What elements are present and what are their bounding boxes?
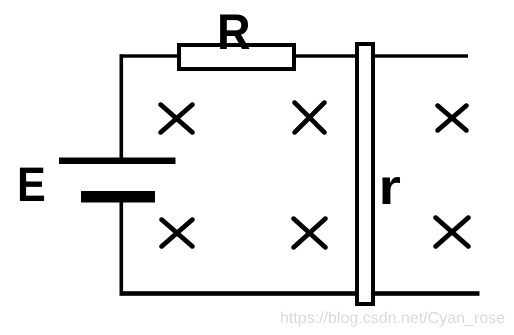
field cross X row2 col2 xyxy=(294,219,326,248)
svg-text:R: R xyxy=(217,4,251,60)
field cross X row2 col1 xyxy=(162,220,193,247)
wire: left vertical upper segment (top corner down to battery top plate) xyxy=(120,54,124,160)
wire: top horizontal from left corner to right end xyxy=(120,54,469,57)
field cross X row1 col3 xyxy=(438,106,467,131)
field cross X row1 col1 xyxy=(161,105,193,133)
wire: left vertical lower segment (battery bottom plate down to bottom wire) xyxy=(120,200,124,295)
field cross X row2 col3 xyxy=(436,218,469,247)
battery E positive plate (long thin) xyxy=(59,158,176,165)
resistor R body xyxy=(179,45,294,69)
svg-text:E: E xyxy=(17,157,46,212)
conducting rod r xyxy=(357,44,373,304)
svg-text:r: r xyxy=(379,159,401,215)
wire: bottom horizontal xyxy=(120,291,480,296)
field cross X row1 col2 xyxy=(295,103,325,133)
svg-text:https://blog.csdn.net/Cyan_ros: https://blog.csdn.net/Cyan_rose xyxy=(280,310,505,327)
battery E negative plate (short thick) xyxy=(81,191,155,203)
